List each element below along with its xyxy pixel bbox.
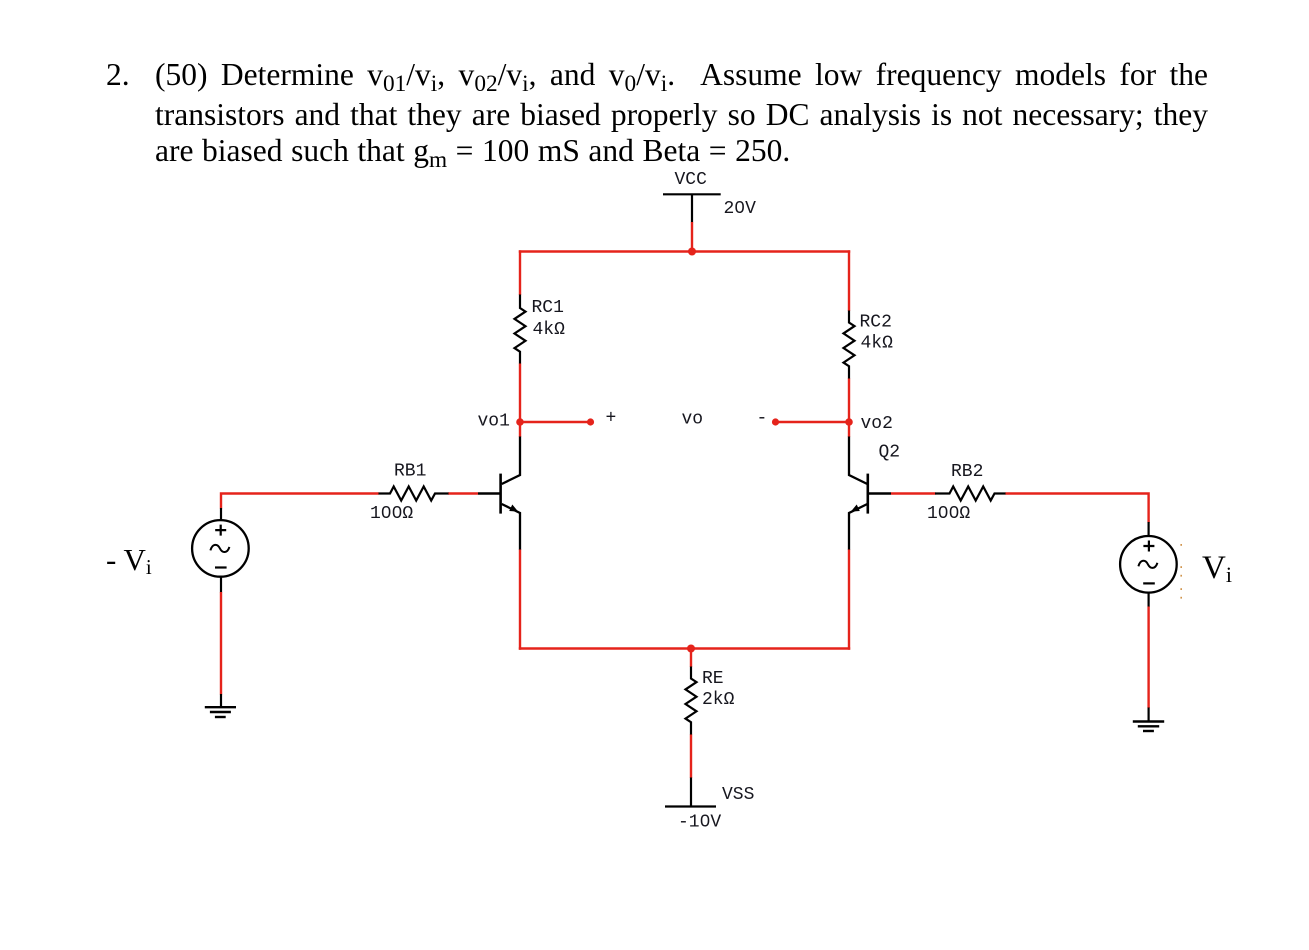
- source V1 minus: [215, 566, 227, 568]
- source V1 circle: [192, 520, 249, 577]
- svg-text:-: -: [757, 409, 768, 429]
- svg-text:RB2: RB2: [951, 462, 983, 482]
- node vo2: [845, 418, 853, 426]
- svg-text:RC1: RC1: [532, 298, 564, 318]
- wire RB2 to source V2: [1006, 494, 1149, 523]
- wire top rail: [519, 250, 850, 252]
- label Vi: [1202, 550, 1232, 588]
- resistor RC2: [844, 311, 855, 380]
- wire Q1 emitter down: [519, 550, 521, 650]
- wire vo1 stub: [520, 421, 591, 423]
- resistor RB1: [378, 487, 449, 501]
- wire vo1 to Q1 collector: [519, 422, 521, 437]
- resistor RB2: [935, 487, 1006, 501]
- wire RE to VSS: [690, 735, 692, 779]
- zero dot covers: [385, 205, 956, 822]
- wire vo2 to Q2 collector: [848, 422, 850, 437]
- wire RC1 to vo1: [519, 364, 521, 423]
- wire VCC drop: [691, 222, 693, 252]
- wire bottom rail: [519, 647, 850, 649]
- svg-text:4kΩ: 4kΩ: [533, 320, 566, 340]
- selection dots: [1180, 544, 1182, 599]
- transistor Q2: [849, 437, 891, 551]
- wire V2 to ground: [1147, 607, 1149, 709]
- resistor RE: [686, 667, 697, 736]
- wire Q1 base: [448, 492, 478, 494]
- svg-text:VCC: VCC: [675, 170, 708, 190]
- svg-text:2kΩ: 2kΩ: [702, 690, 735, 710]
- ground right: [1133, 708, 1164, 732]
- svg-text:100Ω: 100Ω: [370, 504, 413, 524]
- source V1 lead bottom: [220, 577, 222, 593]
- wire Q2 emitter down: [848, 550, 850, 650]
- wire source V1 to RB1: [221, 494, 379, 509]
- svg-text:+: +: [606, 409, 617, 429]
- svg-text:RE: RE: [702, 669, 724, 689]
- power symbol VCC: [663, 194, 721, 222]
- svg-text:RB1: RB1: [394, 462, 426, 482]
- wire V1 to ground: [220, 592, 222, 695]
- svg-text:100Ω: 100Ω: [927, 504, 970, 524]
- source V2 plus: [1143, 541, 1154, 552]
- svg-text:Q2: Q2: [879, 443, 901, 463]
- node vo1 stub end: [587, 418, 594, 425]
- transistor Q1: [478, 437, 520, 551]
- node junction VCC rail: [688, 248, 696, 256]
- source V1 sine: [210, 545, 229, 552]
- node vo1: [516, 418, 524, 426]
- svg-text:vo2: vo2: [861, 414, 893, 434]
- svg-text:vo1: vo1: [478, 412, 510, 432]
- wire junction to RE: [690, 649, 692, 668]
- source V1 lead top: [220, 508, 222, 520]
- svg-text:vo: vo: [682, 410, 704, 430]
- wire RC2 to vo2: [848, 379, 850, 423]
- label -Vi: [106, 542, 152, 580]
- wire right collector top: [848, 250, 850, 311]
- wire vo2 stub: [776, 421, 850, 423]
- source V2 lead top: [1147, 522, 1149, 537]
- wire left collector top: [519, 250, 521, 295]
- source V2 circle: [1120, 536, 1177, 593]
- power symbol VSS: [665, 778, 716, 807]
- source V2 minus: [1143, 582, 1155, 584]
- svg-text:RC2: RC2: [860, 313, 892, 333]
- svg-text:4kΩ: 4kΩ: [861, 334, 894, 354]
- source V2 sine: [1138, 561, 1157, 568]
- wire Q2 base: [891, 492, 936, 494]
- node junction RE rail: [687, 645, 695, 653]
- node vo2 stub end: [772, 418, 779, 425]
- resistor RC1: [515, 295, 526, 364]
- source V2 lead bottom: [1147, 592, 1149, 607]
- svg-text:-10V: -10V: [678, 813, 721, 833]
- svg-text:VSS: VSS: [722, 785, 754, 805]
- source V1 plus: [215, 525, 226, 536]
- ground left: [205, 694, 236, 717]
